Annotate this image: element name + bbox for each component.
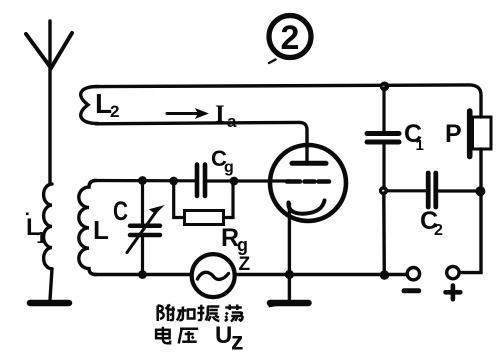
node tank top / C branch — [138, 176, 147, 185]
svg-text:P: P — [445, 120, 462, 148]
wire Cg to grid node — [207, 179, 236, 182]
resistor Rg loop wires — [174, 181, 233, 218]
capacitor C arrow (variable) — [127, 206, 163, 253]
ground (cathode) — [270, 300, 309, 307]
char 荡 — [225, 305, 243, 322]
char 附 — [158, 305, 175, 322]
wire top rail (L2 top to right side) — [96, 85, 481, 117]
svg-text:1: 1 — [416, 137, 424, 154]
node Rg right junction — [230, 177, 239, 186]
noise dot — [26, 213, 29, 216]
cathode arc — [288, 201, 324, 214]
node cathode-rail junction — [285, 270, 294, 279]
wire tank bottom (L to Z source) — [94, 273, 192, 276]
triode envelope — [270, 145, 346, 221]
ground (antenna circuit) — [30, 300, 69, 307]
svg-text:2: 2 — [434, 222, 443, 239]
label C1 — [404, 120, 424, 154]
char 加 — [177, 307, 195, 321]
plate bar — [292, 161, 326, 166]
label Rg — [221, 224, 248, 255]
label plus sign — [446, 286, 461, 300]
node C2 left junction — [379, 186, 388, 195]
source Z sine — [198, 272, 229, 279]
wire L1 to ground — [50, 269, 52, 300]
wire bottom rail (Z to minus terminal) — [235, 273, 408, 277]
capacitor C2 wires — [386, 189, 478, 192]
grid (dashed) — [287, 179, 329, 184]
char 压 — [179, 329, 199, 344]
svg-text:1: 1 — [37, 230, 46, 247]
terminal plus circle — [447, 266, 459, 278]
label Uz — [215, 322, 244, 356]
capacitor C2 plates — [428, 173, 436, 207]
wire cathode lead down to ground — [288, 204, 291, 299]
wire grid lead — [234, 179, 290, 182]
node bottom rail / minus junction — [380, 270, 390, 280]
char 振 — [197, 305, 219, 321]
label L2 — [95, 88, 119, 121]
node tank bottom / C branch — [138, 270, 147, 279]
svg-text:g: g — [237, 235, 248, 255]
transducer P body — [470, 111, 491, 157]
resistor Rg body — [185, 211, 224, 225]
wire tank top (L to Cg) — [94, 179, 195, 183]
current arrow Ia — [167, 109, 208, 118]
svg-text:U: U — [215, 322, 232, 349]
capacitor C plates — [130, 226, 160, 235]
caption line1: 附加振荡 (drawn glyphs) — [156, 304, 279, 344]
source Z circle — [192, 254, 235, 297]
label C2 — [420, 207, 443, 239]
svg-text:2: 2 — [281, 19, 300, 57]
capacitor Cg plates — [197, 165, 205, 197]
variable capacitor C branch wires — [141, 181, 144, 275]
capacitor C1 plates — [367, 134, 399, 143]
node Rg left junction — [169, 177, 178, 186]
wire right rail (P bottom to plus terminal) — [459, 149, 481, 273]
svg-text:g: g — [224, 159, 234, 176]
label Ia — [215, 101, 237, 131]
char 电 — [156, 327, 170, 344]
antenna — [26, 21, 72, 184]
inductor L (grid tank) with frame corners — [79, 181, 96, 275]
node right rail / C2 junction — [475, 186, 485, 196]
label minus sign — [404, 288, 419, 293]
node top rail / C1 junction — [380, 82, 390, 92]
label L1 — [26, 214, 46, 247]
artifact tick — [269, 304, 280, 306]
wire C1 node down to bottom rail — [382, 193, 386, 275]
inductor L2 coupling loop (left brace end) — [81, 87, 98, 124]
capacitor C1 branch wires — [382, 88, 385, 187]
label Cg — [211, 146, 234, 176]
wire L2 bottom to plate — [96, 122, 307, 161]
inductor L1 — [44, 184, 52, 269]
svg-text:2: 2 — [110, 102, 119, 121]
terminal minus circle — [407, 268, 419, 280]
svg-text:C: C — [113, 196, 128, 226]
svg-text:Z: Z — [239, 254, 251, 275]
svg-text:L: L — [93, 215, 109, 245]
circled 2 figure number — [269, 16, 311, 64]
svg-text:z: z — [231, 328, 244, 356]
